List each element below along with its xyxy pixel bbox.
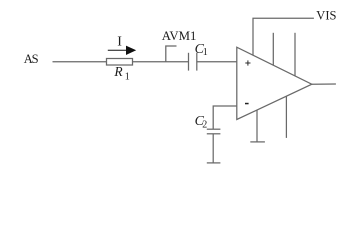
wire C2 to ground: [212, 134, 214, 163]
wire pin to VIS: [253, 18, 314, 55]
resistor R1: [107, 59, 133, 66]
node AVM1 probe tap: [166, 46, 177, 62]
pin top 2: [272, 33, 274, 65]
svg-text:I: I: [117, 35, 122, 50]
svg-text:1: 1: [203, 47, 208, 58]
op-amp + sign: [245, 60, 250, 65]
svg-text:AS: AS: [24, 52, 39, 66]
ground below op-amp: [250, 141, 265, 143]
current arrow I: [108, 46, 135, 54]
svg-text:1: 1: [125, 71, 130, 82]
pin bottom 1: [256, 110, 258, 142]
wire C1 to op-amp + input: [197, 61, 237, 63]
op-amp - sign: [245, 103, 249, 105]
svg-text:R: R: [113, 64, 123, 79]
svg-text:VIS: VIS: [316, 8, 336, 22]
pin top 3: [294, 33, 296, 76]
op-amp U1: [237, 47, 312, 119]
capacitor C2: [207, 128, 221, 130]
pin bottom 2: [285, 96, 287, 138]
wire - input: [213, 106, 237, 129]
wire output: [312, 83, 336, 85]
node AS input wire: [53, 61, 107, 63]
svg-text:AVM1: AVM1: [162, 29, 197, 43]
capacitor C1: [188, 53, 190, 71]
wire R1 to C1: [133, 61, 189, 63]
svg-text:2: 2: [202, 119, 207, 130]
ground below C2: [207, 162, 221, 164]
